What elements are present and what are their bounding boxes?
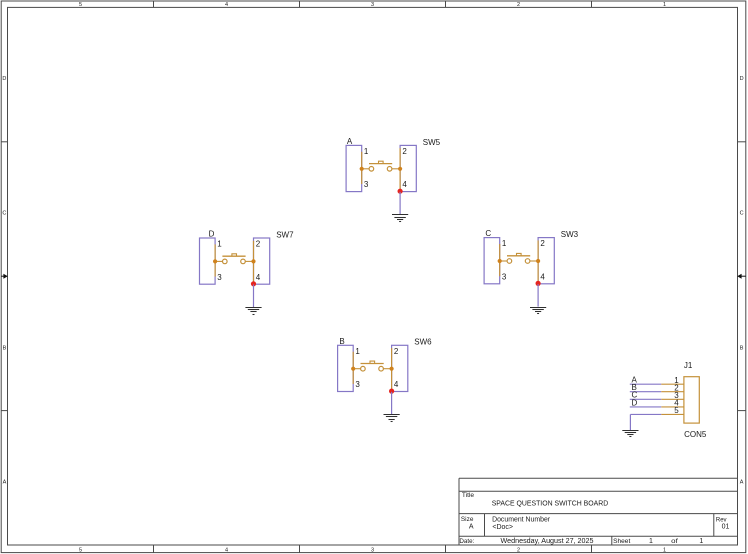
SW3 pushbutton right contact stub wire: [530, 260, 538, 262]
right ruler row letters: [740, 76, 744, 485]
svg-text:D: D: [740, 76, 744, 82]
svg-text:SW5: SW5: [423, 138, 441, 147]
junction at SW3 pin 1: [498, 259, 502, 263]
svg-text:1: 1: [663, 548, 666, 554]
SW7 pin 2-4 vertical pin wire: [253, 241, 255, 284]
svg-text:1: 1: [699, 538, 703, 545]
svg-text:C: C: [740, 211, 744, 217]
SW6 pushbutton actuator bump: [370, 361, 375, 363]
SW7 pushbutton actuator bar: [222, 255, 245, 257]
svg-text:3: 3: [371, 548, 374, 554]
SW7 right body rectangle: [254, 238, 270, 284]
junction at SW6 pin 1: [351, 367, 355, 371]
svg-text:Sheet: Sheet: [613, 538, 630, 545]
svg-text:CON5: CON5: [684, 430, 707, 439]
SW7 pin 1-3 vertical pin wire: [214, 244, 216, 276]
wire SW5 pin 4 to ground: [399, 192, 401, 215]
SW5 pushbutton actuator bar: [369, 163, 392, 165]
svg-text:D: D: [632, 398, 638, 407]
svg-text:3: 3: [355, 380, 360, 389]
SW5 pushbutton left contact stub wire: [362, 168, 369, 170]
svg-text:A: A: [3, 479, 7, 485]
junction at SW5 pin 2: [398, 167, 402, 171]
SW3 pin 2-4 vertical pin wire: [537, 240, 539, 283]
svg-text:D: D: [2, 76, 6, 82]
svg-text:1: 1: [217, 240, 222, 249]
left mid-sheet alignment arrow: [1, 274, 8, 279]
SW7 pushbutton actuator bump: [232, 254, 237, 256]
wire net C to J1 pin 3: [630, 398, 661, 400]
svg-text:of: of: [671, 539, 678, 545]
SW3 pushbutton left contact stub wire: [500, 260, 507, 262]
bottom ruler column numbers: [79, 548, 666, 554]
left ruler zone ticks: [1, 142, 7, 411]
svg-text:C: C: [485, 229, 491, 238]
svg-text:2: 2: [517, 548, 520, 554]
J1 pin 4 stub: [661, 406, 684, 408]
ground under SW6: [384, 415, 400, 422]
wire SW7 pin 4 to ground: [253, 285, 255, 308]
svg-text:3: 3: [364, 180, 369, 189]
SW6 pin 2-4 vertical pin wire: [391, 348, 393, 391]
J1 body rectangle: [684, 377, 699, 423]
svg-text:A: A: [347, 137, 353, 146]
SW7 pushbutton left contact circle: [223, 259, 228, 264]
SW5 pushbutton right contact circle: [387, 167, 392, 172]
wire net A to J1 pin 1: [630, 383, 661, 385]
SW6 pushbutton right contact circle: [379, 366, 384, 371]
SW5 pin 1-3 vertical pin wire: [361, 152, 363, 184]
svg-text:5: 5: [674, 406, 679, 415]
junction at SW7 pin 2: [251, 259, 255, 263]
SW6 pushbutton left contact stub wire: [353, 368, 360, 370]
SW6 right body rectangle: [392, 345, 408, 391]
ground under J1: [622, 431, 638, 437]
J1 pin 2 stub: [661, 391, 684, 393]
right ruler zone ticks: [738, 142, 746, 411]
svg-text:2: 2: [517, 2, 520, 8]
SW6 pin 1-3 vertical pin wire: [352, 352, 354, 384]
connector J1: [622, 361, 707, 439]
svg-text:C: C: [2, 211, 6, 217]
SW3 pushbutton actuator bump: [517, 253, 522, 255]
svg-text:2: 2: [256, 240, 261, 249]
SW3 pin 1-3 vertical pin wire: [499, 244, 501, 276]
J1 pin 1 stub: [661, 383, 684, 385]
J1 pin 5 stub: [661, 413, 684, 415]
svg-text:B: B: [339, 337, 344, 346]
junction at SW5 pin 1: [360, 167, 364, 171]
SW5 right body rectangle: [400, 145, 416, 191]
svg-text:1: 1: [502, 239, 507, 248]
SW7 left body rectangle: [200, 238, 216, 284]
junction at SW6 pin 2: [390, 367, 394, 371]
wire J1 pin 5 to ground (vertical): [629, 414, 631, 430]
svg-text:3: 3: [502, 272, 507, 281]
SW7 pushbutton right contact circle: [241, 259, 246, 264]
svg-text:Wednesday, August 27, 2025: Wednesday, August 27, 2025: [501, 538, 594, 545]
SW6 left body rectangle: [338, 345, 354, 391]
svg-text:5: 5: [79, 2, 82, 8]
svg-text:3: 3: [217, 273, 222, 282]
svg-text:01: 01: [722, 523, 730, 530]
wire net B to J1 pin 2: [630, 391, 661, 393]
SW5 pin 2-4 vertical pin wire: [399, 148, 401, 191]
ground under SW3: [530, 308, 546, 314]
svg-text:A: A: [469, 524, 474, 531]
right mid-sheet alignment arrow: [737, 274, 746, 279]
svg-text:SPACE QUESTION SWITCH BOARD: SPACE QUESTION SWITCH BOARD: [492, 500, 609, 507]
SW6 pushbutton left contact circle: [361, 366, 366, 371]
svg-text:A: A: [740, 479, 744, 485]
svg-text:1: 1: [364, 147, 369, 156]
junction at SW5 pin 4 (ground net): [398, 189, 403, 194]
SW5 pushbutton right contact stub wire: [392, 168, 400, 170]
wire SW3 pin 4 to ground: [537, 284, 539, 307]
switch SW6: [338, 337, 433, 422]
wire SW6 pin 4 to ground: [391, 392, 393, 415]
J1 pin 3 stub: [661, 398, 684, 400]
SW6 pushbutton actuator bar: [361, 363, 384, 365]
svg-text:SW6: SW6: [414, 338, 432, 347]
svg-text:D: D: [209, 230, 215, 239]
svg-text:4: 4: [225, 548, 228, 554]
SW5 left body rectangle: [346, 145, 362, 191]
top ruler zone ticks: [154, 1, 592, 7]
junction at SW7 pin 4 (ground net): [251, 281, 256, 286]
svg-text:B: B: [3, 346, 7, 352]
svg-text:4: 4: [225, 2, 228, 8]
junction at SW3 pin 4 (ground net): [536, 281, 541, 286]
wire net D to J1 pin 4: [630, 406, 661, 408]
SW5 pushbutton left contact circle: [369, 167, 374, 172]
svg-text:2: 2: [394, 347, 399, 356]
svg-text:2: 2: [540, 239, 545, 248]
svg-text:SW7: SW7: [276, 230, 294, 239]
svg-text:4: 4: [540, 272, 545, 281]
svg-text:<Doc>: <Doc>: [492, 524, 513, 531]
SW6 pushbutton right contact stub wire: [383, 368, 391, 370]
svg-text:Size: Size: [461, 517, 474, 523]
junction at SW6 pin 4 (ground net): [389, 389, 394, 394]
SW3 left body rectangle: [484, 238, 500, 284]
switch SW7: [200, 230, 295, 315]
svg-text:3: 3: [371, 2, 374, 8]
switch SW3: [484, 229, 579, 313]
SW7 pushbutton right contact stub wire: [245, 260, 253, 262]
ground under SW7: [245, 308, 261, 315]
svg-text:Document Number: Document Number: [492, 516, 551, 523]
ground under SW5: [392, 215, 408, 222]
junction at SW7 pin 1: [213, 259, 217, 263]
left ruler row letters: [2, 76, 6, 485]
top ruler column numbers: [79, 2, 666, 8]
svg-text:2: 2: [402, 147, 407, 156]
SW3 right body rectangle: [538, 238, 554, 284]
SW3 pushbutton right contact circle: [525, 259, 530, 264]
svg-text:J1: J1: [684, 361, 693, 370]
SW5 pushbutton actuator bump: [379, 161, 384, 163]
svg-text:4: 4: [256, 273, 261, 282]
SW3 pushbutton left contact circle: [507, 259, 512, 264]
svg-text:5: 5: [79, 548, 82, 554]
junction at SW3 pin 2: [536, 259, 540, 263]
svg-text:Title: Title: [462, 493, 475, 499]
SW7 pushbutton left contact stub wire: [215, 260, 222, 262]
svg-text:1: 1: [355, 347, 360, 356]
svg-text:4: 4: [394, 380, 399, 389]
svg-text:B: B: [740, 346, 744, 352]
SW3 pushbutton actuator bar: [507, 255, 530, 257]
svg-text:4: 4: [402, 180, 407, 189]
svg-text:1: 1: [663, 2, 666, 8]
svg-text:SW3: SW3: [561, 230, 579, 239]
wire J1 pin 5 to ground (horizontal): [630, 413, 661, 415]
title block outline: [459, 478, 738, 545]
svg-text:Date:: Date:: [459, 539, 474, 545]
switch SW5: [346, 137, 441, 222]
svg-text:1: 1: [649, 538, 653, 545]
bottom ruler zone ticks: [154, 545, 592, 553]
